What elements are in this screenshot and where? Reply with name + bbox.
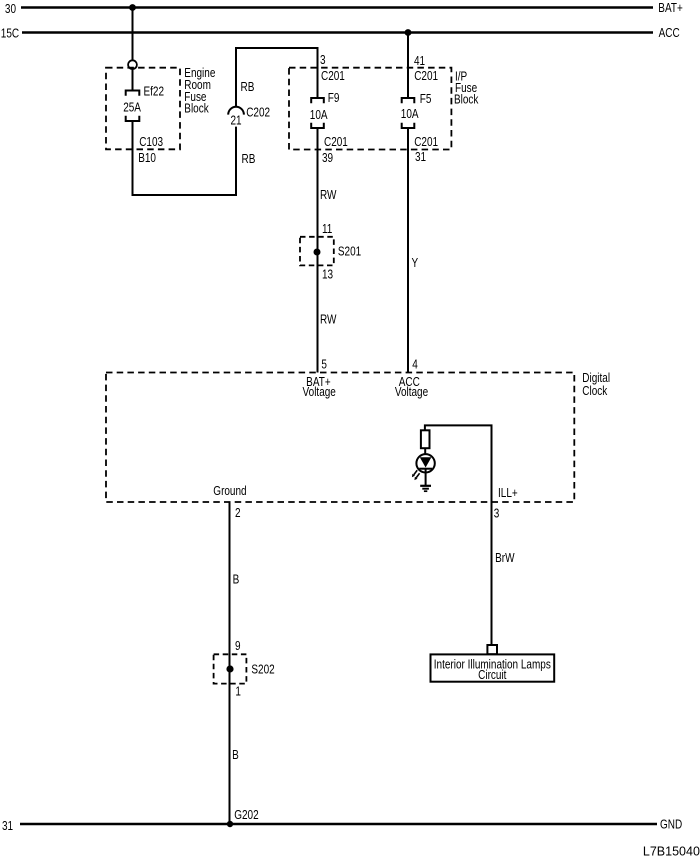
- svg-text:31: 31: [2, 820, 13, 833]
- svg-text:21: 21: [231, 115, 242, 128]
- svg-text:Circuit: Circuit: [478, 669, 507, 682]
- svg-text:13: 13: [322, 269, 333, 282]
- svg-text:41: 41: [414, 55, 425, 68]
- svg-text:C201: C201: [414, 136, 438, 149]
- svg-text:1: 1: [235, 686, 241, 699]
- svg-text:Ef22: Ef22: [144, 86, 165, 99]
- svg-text:4: 4: [412, 359, 418, 372]
- svg-text:S201: S201: [338, 246, 361, 259]
- svg-text:5: 5: [321, 359, 327, 372]
- svg-text:F9: F9: [328, 92, 340, 105]
- svg-text:L7B15040: L7B15040: [643, 844, 700, 858]
- svg-text:10A: 10A: [310, 109, 328, 122]
- svg-text:Ground: Ground: [213, 485, 246, 498]
- svg-text:Block: Block: [454, 93, 479, 106]
- svg-text:C201: C201: [324, 136, 348, 149]
- svg-text:GND: GND: [660, 819, 682, 832]
- svg-text:30: 30: [5, 3, 16, 16]
- svg-text:2: 2: [235, 507, 241, 520]
- svg-text:39: 39: [322, 152, 333, 165]
- svg-text:Block: Block: [184, 103, 209, 116]
- svg-text:F5: F5: [420, 93, 432, 106]
- svg-text:10A: 10A: [401, 108, 419, 121]
- svg-text:3: 3: [494, 508, 500, 521]
- svg-text:RB: RB: [241, 81, 255, 94]
- svg-text:11: 11: [322, 223, 332, 236]
- svg-text:C103: C103: [139, 136, 163, 149]
- svg-text:S202: S202: [251, 664, 274, 677]
- svg-text:C202: C202: [246, 107, 270, 120]
- svg-text:RW: RW: [320, 314, 337, 327]
- svg-text:3: 3: [320, 54, 326, 67]
- svg-text:31: 31: [415, 151, 426, 164]
- svg-text:ILL+: ILL+: [498, 487, 518, 500]
- svg-text:ACC: ACC: [659, 27, 680, 40]
- svg-text:BrW: BrW: [495, 552, 515, 565]
- svg-text:Clock: Clock: [582, 385, 607, 398]
- svg-text:C201: C201: [414, 70, 438, 83]
- svg-text:RW: RW: [320, 189, 337, 202]
- svg-text:25A: 25A: [123, 102, 141, 115]
- svg-text:Voltage: Voltage: [303, 386, 336, 399]
- svg-text:Voltage: Voltage: [395, 386, 428, 399]
- svg-text:15C: 15C: [1, 27, 19, 40]
- svg-text:BAT+: BAT+: [658, 2, 683, 15]
- svg-text:B: B: [232, 749, 239, 762]
- svg-text:9: 9: [235, 640, 241, 653]
- svg-text:C201: C201: [321, 70, 345, 83]
- svg-text:Y: Y: [412, 257, 419, 270]
- svg-text:B10: B10: [138, 152, 156, 165]
- svg-text:B: B: [233, 574, 240, 587]
- svg-text:RB: RB: [242, 153, 256, 166]
- svg-text:G202: G202: [234, 809, 258, 822]
- svg-text:Digital: Digital: [582, 372, 610, 385]
